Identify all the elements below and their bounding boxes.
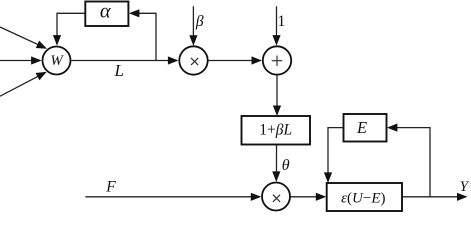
svg-text:ε(U−E): ε(U−E) (341, 191, 385, 207)
svg-text:1+βL: 1+βL (259, 122, 292, 139)
svg-text:1: 1 (277, 13, 285, 30)
svg-text:F: F (105, 178, 116, 195)
svg-text:θ: θ (282, 157, 290, 174)
svg-text:β: β (195, 13, 204, 30)
svg-text:Y: Y (460, 179, 470, 195)
svg-text:α: α (100, 1, 112, 23)
svg-text:L: L (113, 61, 123, 80)
svg-text:W: W (50, 53, 64, 69)
svg-text:E: E (356, 118, 367, 137)
